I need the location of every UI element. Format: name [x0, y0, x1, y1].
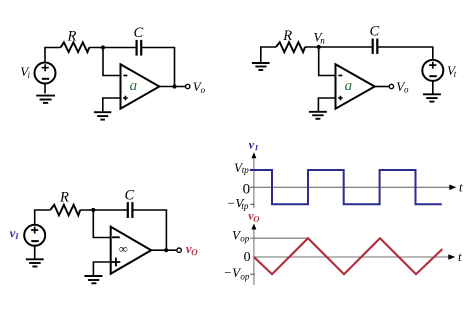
svg-text:C: C	[125, 188, 135, 204]
output wire	[151, 249, 176, 251]
label Vn	[314, 30, 326, 46]
wire source top to resistor	[35, 210, 51, 225]
output wire	[159, 86, 185, 88]
op-amp U3	[111, 227, 152, 274]
triangle wave vO	[254, 238, 442, 274]
op-amp plus sign	[112, 258, 121, 267]
ground at op-amp + input	[84, 276, 102, 283]
output wire	[375, 86, 389, 88]
node Vn junction	[317, 45, 321, 49]
resistor R	[50, 205, 80, 216]
ground at left end	[252, 63, 270, 70]
svg-text:0: 0	[243, 182, 251, 198]
op-amp plus sign	[123, 96, 128, 101]
tick 0 level	[250, 186, 254, 188]
output terminal	[186, 84, 190, 88]
op-amp minus sign	[112, 236, 120, 238]
label -Vop	[223, 265, 250, 281]
label vI	[10, 231, 19, 239]
wire source bottom to ground	[44, 84, 46, 94]
wire noninverting input to ground	[103, 98, 121, 112]
node junction	[91, 208, 95, 212]
capacitor C	[128, 202, 133, 218]
tick -Vtp	[250, 203, 254, 205]
op-amp minus sign	[338, 75, 342, 77]
ground under Vi	[36, 96, 55, 103]
output terminal	[177, 248, 181, 252]
square wave vI	[250, 170, 442, 204]
wire node to inverting input	[103, 48, 121, 76]
wire noninverting input to ground	[93, 262, 110, 275]
svg-text:C: C	[134, 25, 144, 41]
svg-text:o: o	[404, 85, 409, 95]
capacitor C	[137, 40, 142, 56]
y-axis	[251, 224, 256, 286]
op-amp plus sign	[338, 96, 343, 101]
svg-text:∞: ∞	[119, 242, 128, 256]
ground at op-amp + input	[309, 112, 327, 119]
svg-text:o: o	[201, 85, 206, 95]
svg-text:−V: −V	[223, 265, 242, 280]
wire source top to resistor	[45, 48, 61, 63]
wire node to inverting input	[93, 210, 110, 238]
label Vo	[396, 79, 409, 95]
ground under Vt	[423, 94, 441, 101]
svg-text:R: R	[282, 28, 292, 44]
ground under vI	[26, 259, 44, 266]
svg-text:op: op	[240, 271, 250, 281]
capacitor C	[373, 39, 378, 54]
wire resistor to node Vn	[305, 46, 372, 48]
label Vo	[193, 79, 206, 95]
op-amp U2	[336, 64, 375, 108]
label vI plot	[249, 143, 258, 150]
svg-text:t: t	[459, 181, 463, 195]
wire resistor to node	[89, 47, 136, 49]
wire source bottom to ground	[34, 246, 36, 259]
svg-text:C: C	[370, 24, 380, 40]
svg-text:0: 0	[244, 250, 251, 265]
output node junction	[164, 248, 168, 252]
label vO plot	[248, 214, 259, 222]
label -Vtp	[227, 196, 249, 211]
label Vop	[232, 228, 250, 244]
op-amp gain a	[345, 83, 351, 90]
tick -Vop	[250, 273, 254, 275]
Vop level line	[250, 237, 308, 239]
wire node Vn to inverting input	[319, 47, 336, 76]
output node junction	[172, 84, 176, 88]
svg-text:R: R	[59, 190, 69, 206]
wire Vt to ground	[432, 81, 434, 94]
svg-text:R: R	[67, 28, 77, 44]
x-axis t	[254, 254, 455, 260]
resistor R	[276, 42, 305, 52]
wire cap to feedback corner	[132, 210, 166, 250]
svg-text:tp: tp	[241, 201, 249, 211]
label Vi	[20, 64, 30, 80]
wire cap to Vt source	[377, 47, 433, 60]
op-amp gain a	[130, 83, 136, 90]
label Vt	[447, 63, 457, 79]
wire noninverting input to ground	[318, 98, 335, 111]
ground at op-amp + input	[94, 112, 111, 119]
wire cap to feedback corner	[141, 48, 174, 87]
x-axis t	[254, 185, 456, 191]
wire resistor to node	[80, 209, 127, 211]
resistor R	[61, 42, 90, 52]
voltage source vI	[24, 225, 45, 246]
svg-text:t: t	[458, 250, 462, 264]
output terminal	[389, 84, 393, 88]
label Vtp	[234, 160, 249, 175]
label vO	[186, 247, 198, 255]
svg-text:op: op	[240, 234, 250, 244]
op-amp U1	[121, 64, 160, 108]
y-axis	[251, 152, 256, 208]
svg-text:tp: tp	[242, 165, 250, 175]
svg-text:n: n	[320, 36, 325, 46]
wire ground to resistor	[261, 47, 276, 62]
op-amp minus sign	[123, 75, 127, 77]
voltage source Vt	[422, 60, 443, 81]
node junction	[101, 45, 105, 49]
voltage source Vi	[35, 63, 56, 84]
